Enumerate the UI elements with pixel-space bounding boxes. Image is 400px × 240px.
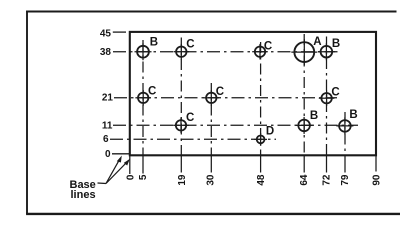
svg-text:5: 5 [138, 174, 149, 180]
column centerline x=72 [326, 37, 328, 156]
base line tick x=0 [129, 155, 131, 174]
svg-text:C: C [331, 86, 339, 98]
svg-text:lines: lines [71, 189, 96, 201]
svg-text:72: 72 [322, 174, 333, 186]
column centerline x=64 [303, 34, 305, 155]
column centerline x=30 [210, 83, 212, 155]
svg-text:C: C [264, 41, 272, 53]
svg-text:B: B [349, 109, 357, 121]
outer frame left edge [26, 11, 28, 215]
hole D (48,6) [254, 133, 267, 146]
svg-text:D: D [266, 126, 274, 138]
outer frame bottom edge [26, 213, 400, 215]
column tick x=79 [344, 155, 346, 173]
svg-text:B: B [310, 110, 318, 122]
hole A (64,38) [291, 39, 317, 65]
row line y=38 [113, 51, 338, 53]
column tick x=90 [375, 155, 377, 172]
Base lines leader dash [98, 182, 107, 185]
hole C (19,11) [173, 118, 189, 134]
column tick x=5 [142, 155, 144, 174]
svg-text:0: 0 [125, 174, 136, 180]
svg-text:21: 21 [102, 92, 114, 103]
column tick x=72 [326, 155, 328, 173]
leader line 0 [112, 153, 130, 155]
svg-text:45: 45 [100, 29, 112, 40]
svg-text:A: A [313, 36, 321, 48]
svg-text:C: C [186, 112, 194, 124]
column tick x=30 [210, 155, 212, 173]
hole C (5,21) [135, 90, 151, 106]
plate outline [130, 32, 376, 155]
row line y=6 [110, 138, 276, 140]
svg-text:90: 90 [372, 174, 383, 186]
svg-text:B: B [150, 37, 158, 49]
hole C (48,38) [252, 44, 268, 60]
column centerline x=79 [344, 112, 346, 155]
svg-text:79: 79 [340, 174, 351, 186]
hole C (30,21) [204, 90, 220, 106]
column centerline x=5 [142, 40, 144, 155]
hole C (72,21) [319, 90, 335, 106]
hole C (19,38) [174, 44, 190, 60]
svg-text:B: B [332, 38, 340, 50]
svg-text:C: C [148, 85, 156, 97]
hole B (5,38) [135, 43, 152, 60]
column tick x=64 [303, 155, 305, 173]
leader line 45 [113, 31, 126, 33]
row line y=21 [114, 97, 337, 99]
svg-text:0: 0 [105, 149, 111, 160]
svg-text:64: 64 [299, 174, 310, 186]
hole B (72,38) [318, 43, 335, 60]
svg-text:48: 48 [256, 174, 267, 186]
leader arrow to y baseline [106, 156, 122, 184]
hole B (79,11) [336, 117, 353, 134]
hole B (64,11) [296, 117, 313, 134]
column tick x=48 [260, 155, 262, 173]
svg-text:C: C [186, 39, 194, 51]
column tick x=19 [180, 155, 182, 173]
leader arrow to x baseline [106, 159, 130, 184]
svg-text:38: 38 [100, 47, 112, 58]
row line y=11 [113, 124, 358, 126]
svg-text:30: 30 [206, 174, 217, 186]
svg-text:11: 11 [102, 121, 113, 132]
column centerline x=48 [260, 42, 262, 155]
svg-text:19: 19 [177, 174, 188, 186]
column centerline x=19 [180, 38, 182, 156]
svg-text:C: C [216, 86, 224, 98]
outer frame top edge [26, 11, 396, 13]
svg-text:6: 6 [103, 134, 109, 145]
